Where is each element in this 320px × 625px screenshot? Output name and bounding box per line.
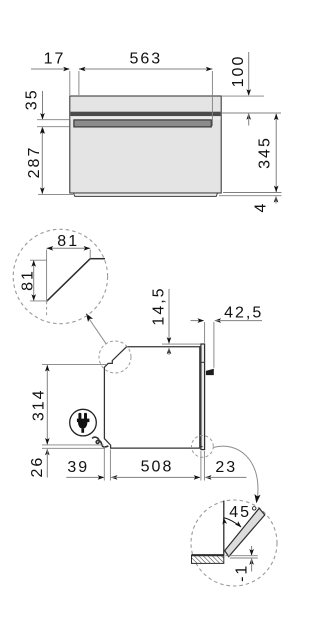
svg-text:81: 81 bbox=[20, 269, 37, 291]
angle arc bbox=[224, 518, 241, 527]
dim 4 arrow and tail bbox=[274, 196, 279, 203]
front view body bbox=[70, 96, 221, 193]
detail chamfer diagonal bbox=[47, 259, 91, 302]
plug symbol circle bbox=[70, 409, 97, 436]
detail circle 45 (dashed) bbox=[191, 500, 277, 586]
svg-text:287: 287 bbox=[26, 146, 43, 179]
detail vertical wall line bbox=[223, 501, 225, 556]
bottom dim line 39 bbox=[66, 476, 104, 478]
dim 287 line bbox=[41, 128, 43, 194]
bottom dim line 508 bbox=[111, 475, 118, 480]
dim 26 arrow and tail bbox=[45, 449, 50, 456]
svg-text:23: 23 bbox=[215, 459, 237, 476]
plug prong left bbox=[78, 413, 81, 419]
ext line body bottom left bbox=[42, 447, 105, 449]
dim 563 line bbox=[79, 68, 213, 70]
side door notch tick bbox=[201, 361, 205, 363]
svg-text:4: 4 bbox=[253, 202, 270, 213]
ext line corner a bbox=[103, 446, 105, 481]
dim 100 line upper bbox=[248, 52, 250, 95]
ext line base left bbox=[38, 193, 73, 195]
ext line worktop right bbox=[225, 555, 257, 557]
ext line chamfer left bbox=[42, 364, 106, 366]
dim 314 line bbox=[46, 365, 48, 444]
leader to bottom-right detail bbox=[214, 446, 258, 499]
svg-text:39: 39 bbox=[67, 459, 89, 476]
ext line door front bbox=[204, 322, 206, 343]
detail top edge bbox=[90, 258, 105, 260]
plug stem bbox=[81, 429, 84, 433]
dim 35 line bbox=[42, 91, 44, 119]
front handle bar bbox=[74, 120, 211, 127]
ext line detail bottom bbox=[30, 300, 48, 302]
ext line door bottom right bbox=[223, 192, 282, 194]
plug bell body bbox=[78, 422, 87, 429]
plug face plate bbox=[77, 419, 90, 423]
ext line detail right bbox=[89, 250, 91, 259]
ext line 563 right bbox=[211, 71, 213, 126]
side door strip bbox=[201, 344, 205, 450]
dim -1 upper line bbox=[251, 546, 253, 555]
svg-text:81: 81 bbox=[57, 233, 79, 250]
dim 42,5 right tail bbox=[214, 318, 221, 323]
svg-text:17: 17 bbox=[44, 51, 66, 68]
corner detail circle (dashed, bottom-right) bbox=[192, 436, 214, 458]
ext line 563 left arrow ref bbox=[78, 71, 80, 95]
front light strip bbox=[70, 116, 220, 119]
svg-text:563: 563 bbox=[129, 51, 162, 68]
corner detail circle (dashed, top-left) bbox=[99, 341, 131, 373]
svg-text:35: 35 bbox=[24, 88, 41, 110]
ext line handle top left bbox=[37, 119, 69, 121]
dim 345 line bbox=[275, 114, 277, 192]
ext line door top bbox=[162, 343, 200, 345]
svg-text:314: 314 bbox=[31, 388, 48, 421]
ext line left of 563 bbox=[69, 71, 71, 95]
power cord curl bbox=[92, 437, 108, 447]
ext line handle bottom left bbox=[37, 126, 69, 128]
dim 100 line lower bbox=[246, 113, 251, 120]
ext line door back bbox=[200, 451, 202, 481]
ext line detail left bbox=[46, 250, 48, 301]
dim 14,5 line bbox=[168, 289, 170, 343]
ext line door tip right bbox=[230, 557, 258, 559]
front base strip bbox=[74, 193, 218, 196]
detail dashed continuation bbox=[46, 301, 48, 317]
ext line cord left bbox=[42, 444, 104, 446]
svg-text:14,5: 14,5 bbox=[151, 286, 168, 325]
side door bottom step bbox=[201, 446, 203, 448]
dim 81 vertical bbox=[33, 260, 35, 300]
svg-text:100: 100 bbox=[230, 55, 247, 88]
ext line top right bbox=[222, 95, 264, 97]
ext line handle tip bbox=[213, 322, 215, 368]
side handle bbox=[206, 369, 214, 375]
tilted door strip bbox=[225, 508, 265, 556]
ext line detail top bbox=[30, 259, 47, 261]
svg-text:345: 345 bbox=[257, 136, 274, 169]
ext line door front bottom bbox=[203, 451, 205, 481]
dim 42,5 left tail bbox=[191, 320, 204, 322]
svg-text:26: 26 bbox=[29, 456, 46, 478]
side view body outline bbox=[104, 347, 199, 448]
front dark band bbox=[70, 112, 220, 117]
detail circle (dashed) bbox=[13, 229, 107, 323]
dim 81 horizontal bbox=[47, 247, 91, 249]
svg-text:508: 508 bbox=[141, 459, 174, 476]
dim 17 line bbox=[31, 68, 69, 70]
ext line band right bbox=[222, 112, 281, 114]
hatched worktop bar bbox=[192, 555, 224, 563]
ext line base bottom right bbox=[219, 195, 282, 197]
svg-text:45°: 45° bbox=[229, 504, 259, 521]
leader to top-left detail bbox=[88, 318, 106, 344]
bottom dim line 23 bbox=[205, 475, 212, 480]
ext line corner b bbox=[109, 450, 111, 481]
svg-text:42,5: 42,5 bbox=[224, 304, 263, 321]
worktop top edge thick bbox=[192, 554, 224, 556]
plug prong right bbox=[84, 413, 87, 419]
svg-text:-1: -1 bbox=[233, 564, 250, 582]
